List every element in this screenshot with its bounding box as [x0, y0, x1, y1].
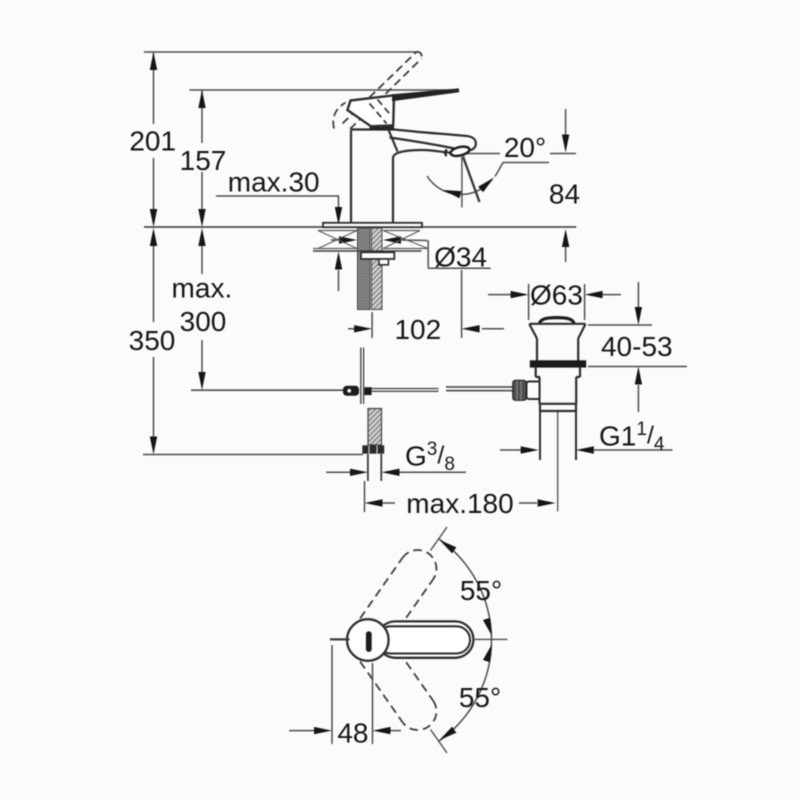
- drain flange rim: [529, 323, 585, 325]
- svg-text:350: 350: [129, 325, 176, 356]
- svg-text:300: 300: [180, 306, 227, 337]
- drain flange taper: [529, 324, 585, 361]
- handle pin: [330, 638, 350, 640]
- drain side port boss: [527, 382, 539, 400]
- nut lug: [379, 259, 388, 265]
- dimension 40-53: [588, 282, 687, 412]
- hose-end baseline (350 level): [143, 454, 363, 456]
- aerator: [450, 145, 471, 158]
- counter underside line: [313, 250, 422, 252]
- dimension 102: [348, 270, 504, 338]
- rod clamp: [343, 386, 359, 396]
- dimension 84 vertical line: [550, 109, 576, 262]
- svg-text:48: 48: [337, 717, 368, 748]
- pop-up pull rod (double line): [360, 348, 362, 405]
- handle collar: [370, 125, 395, 130]
- drain upper body: [536, 368, 580, 411]
- lever inner stadium: [377, 626, 470, 653]
- right mounting washer: [383, 231, 428, 249]
- dashed ghost lever +55: [360, 543, 444, 640]
- dimension Ø34: [331, 240, 491, 268]
- dimension 157 vertical line: [201, 91, 203, 209]
- threaded shank (knurl): [358, 228, 371, 310]
- svg-text:max.: max.: [172, 273, 233, 304]
- dimension 201 vertical line: [153, 53, 155, 209]
- 20 degree annotation: [427, 154, 549, 195]
- faucet body column: [351, 130, 395, 224]
- threaded stud (hatch): [372, 228, 383, 310]
- svg-text:84: 84: [549, 179, 580, 210]
- swivel ray extension upper: [431, 527, 448, 551]
- svg-text:55°: 55°: [459, 682, 501, 713]
- drain centerline: [557, 412, 559, 512]
- dimension 48: [289, 645, 401, 744]
- svg-text:max.180: max.180: [406, 488, 513, 519]
- hose nut G3/8: [362, 445, 384, 453]
- pop-up rod right segment (double): [446, 386, 513, 388]
- svg-text:max.30: max.30: [228, 167, 320, 198]
- handle boss circle: [347, 619, 389, 661]
- svg-text:Ø34: Ø34: [434, 242, 487, 273]
- dimension G1 1/4: [500, 449, 673, 451]
- dimension G3/8: [326, 471, 466, 473]
- water stream vertical ray: [461, 157, 463, 208]
- dashed ghost handle bottom edge over handle: [370, 100, 392, 124]
- dashed raised-handle ghost: [333, 52, 421, 129]
- supply hose (hatch): [368, 409, 382, 446]
- water stream 20deg jet: [463, 157, 480, 203]
- centerline right of lever: [474, 638, 508, 640]
- svg-text:55°: 55°: [460, 575, 502, 606]
- svg-text:20°: 20°: [504, 132, 546, 163]
- mounting nut: [361, 252, 394, 259]
- base plate: [323, 223, 422, 227]
- handle lever: [392, 88, 459, 101]
- svg-text:40-53: 40-53: [601, 331, 673, 362]
- spout: [389, 130, 476, 159]
- swivel ray extension lower: [431, 730, 448, 754]
- top extension line (201 level): [144, 51, 419, 53]
- lever outer stadium: [377, 621, 473, 657]
- pop-up horizontal rod left segment: [191, 389, 344, 391]
- dimension 350 vertical line: [153, 246, 155, 437]
- dimension Ø63: [488, 284, 621, 320]
- handle-top extension line (157 level): [189, 89, 459, 91]
- hose pipe end: [368, 454, 381, 481]
- swivel arc upper: [439, 539, 492, 640]
- drain seal ring: [530, 360, 586, 367]
- svg-text:Ø63: Ø63: [530, 280, 583, 311]
- drain knurled knob: [513, 380, 527, 400]
- pop-up horizontal rod middle segment (double): [372, 388, 439, 390]
- drain tailpipe: [540, 411, 576, 460]
- dimension max.30 leader: [216, 196, 339, 291]
- countertop line: [144, 226, 576, 228]
- swivel arc lower: [439, 640, 492, 741]
- dimension max.300 vertical line: [201, 246, 203, 372]
- left mounting washer: [313, 231, 357, 249]
- handle slot: [366, 631, 372, 652]
- handle body: [347, 95, 394, 126]
- svg-text:201: 201: [129, 126, 176, 157]
- svg-text:102: 102: [394, 314, 441, 345]
- dimension max.180: [365, 481, 538, 512]
- dashed ghost lever -55: [360, 640, 444, 737]
- drain cap dome: [540, 318, 575, 324]
- svg-text:157: 157: [180, 145, 227, 176]
